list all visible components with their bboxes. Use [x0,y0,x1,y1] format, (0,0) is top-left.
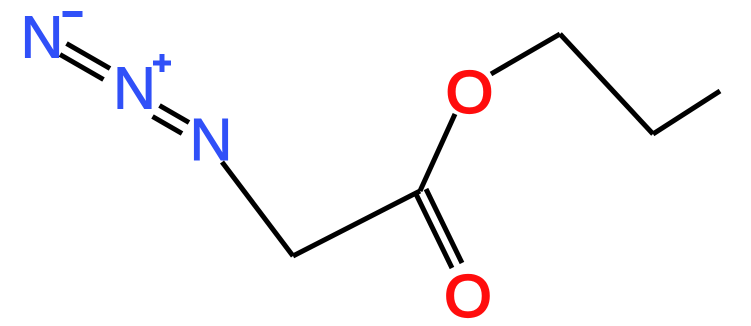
svg-text:N: N [190,106,233,173]
svg-text:O: O [446,59,493,125]
wire bond C4-C5 [293,191,420,256]
atom O7 (carbonyl O) label [444,263,491,326]
charge minus on N1 [63,11,83,17]
svg-text:N: N [113,55,156,122]
double bond C5=O7 (carbonyl) [416,194,452,268]
wire bond O6-C8 [491,34,560,74]
svg-text:N: N [21,4,64,71]
wire bond C8-C9 [560,34,653,134]
charge plus on N2 [153,61,171,66]
wire bond C9-C10 [653,91,720,134]
double bond N2=N3 [160,106,190,123]
double bond N1=N2 [67,44,111,69]
wire bond N3-C4 [222,162,293,256]
atom O6 (ester O) label [446,59,493,125]
wire bond C5-O6 (ester) [420,114,455,191]
svg-text:O: O [444,263,491,326]
